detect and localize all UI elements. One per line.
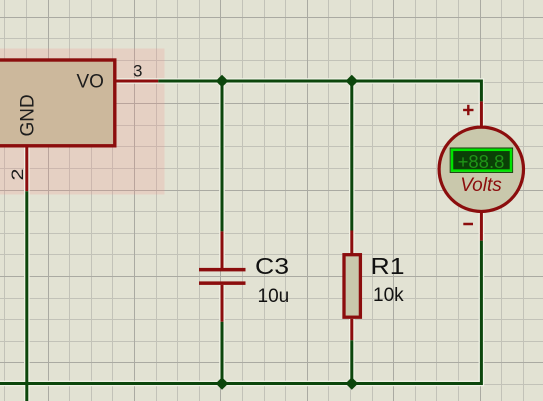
svg-text:2: 2 (8, 169, 27, 181)
svg-text:10u: 10u (258, 286, 290, 307)
resistor R1 body (344, 255, 360, 318)
wire: C3 top green lead (221, 81, 224, 231)
wire: left vertical net from GND pin (25, 191, 28, 401)
wire: R1 bottom green lead (350, 340, 353, 383)
svg-text:+88.8: +88.8 (458, 151, 505, 172)
wire: bottom horizontal net (0, 241, 481, 384)
pin 3 wire (red) (117, 80, 159, 83)
wire: C3 bottom green lead (221, 322, 224, 384)
svg-text:C3: C3 (255, 253, 289, 279)
voltmeter body (439, 127, 523, 211)
resistor R1 top pin (red) (350, 231, 353, 255)
pin 2 wire (red) (25, 146, 28, 191)
svg-text:10k: 10k (373, 285, 404, 306)
wire: R1 top green lead (350, 81, 353, 231)
voltmeter plus mark (463, 105, 473, 115)
svg-text:GND: GND (18, 94, 39, 136)
voltmeter negative pin (red) (480, 212, 483, 241)
junction bottom at C3 (216, 377, 229, 390)
svg-text:VO: VO (77, 72, 104, 93)
junction top at C3 (216, 75, 229, 88)
resistor R1 bottom pin (red) (350, 319, 353, 340)
voltmeter display (452, 150, 511, 171)
regulator U1 body (0, 60, 115, 146)
voltmeter positive pin (red) (480, 101, 483, 127)
capacitor C3 top pin (red) (221, 231, 224, 268)
junction top at R1 (346, 75, 359, 88)
voltmeter display outline (450, 148, 512, 172)
svg-text:Volts: Volts (460, 175, 502, 196)
wire: top horizontal net (158, 81, 481, 101)
capacitor C3 bottom plate (199, 281, 246, 285)
svg-text:3: 3 (133, 62, 142, 81)
wire halos (light anti-alias fringe) (0, 81, 481, 401)
junction bottom at R1 (346, 377, 359, 390)
svg-text:R1: R1 (371, 253, 405, 279)
capacitor C3 bottom pin (red) (221, 285, 224, 322)
highlight overlay around U1 (0, 49, 165, 195)
voltmeter minus mark (463, 223, 473, 226)
capacitor C3 top plate (199, 268, 246, 272)
